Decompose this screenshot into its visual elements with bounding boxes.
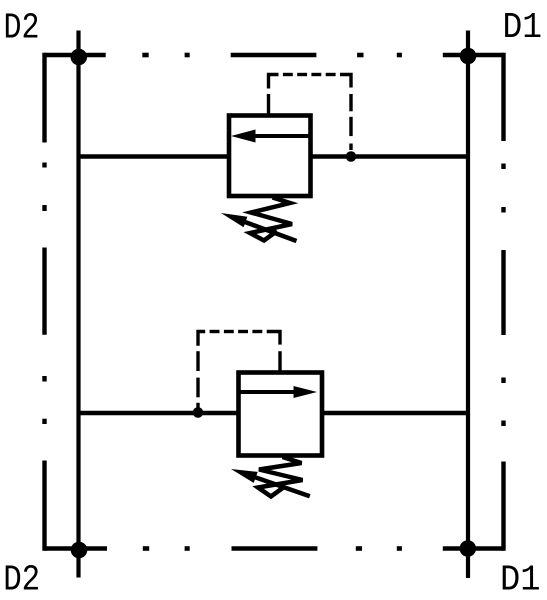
wire: lower branch line xyxy=(79,411,469,415)
wire: left rail D2 xyxy=(76,31,80,578)
enclosure phantom bracket left xyxy=(42,53,46,551)
enclosure phantom line top (dash-dot-dot) xyxy=(44,53,504,58)
svg-text:D1: D1 xyxy=(503,7,543,48)
relief valve RV1 adjustable spring xyxy=(221,198,297,242)
svg-text:D2: D2 xyxy=(4,8,40,49)
relief valve RV2 adjustable spring xyxy=(231,457,310,497)
junction dot bottom-left xyxy=(71,542,88,559)
enclosure phantom bracket right xyxy=(501,53,505,551)
relief valve RV2 pilot line (dashed) xyxy=(198,332,280,410)
pilot junction node on upper branch xyxy=(346,151,357,162)
relief valve RV2 flow arrow xyxy=(239,386,318,398)
svg-text:D2: D2 xyxy=(3,560,40,600)
relief valve RV1 body xyxy=(229,116,311,197)
junction dot bottom-right xyxy=(460,540,477,557)
wire: upper branch line xyxy=(79,154,469,158)
svg-text:D1: D1 xyxy=(500,560,541,600)
relief valve RV1 pilot line (dashed) xyxy=(269,75,352,151)
wire: right rail D1 xyxy=(466,31,470,579)
enclosure phantom line bottom (dash-dot-dot) xyxy=(44,546,504,551)
relief valve RV2 body xyxy=(239,373,323,456)
pilot junction node on lower branch xyxy=(193,407,204,418)
relief valve RV1 flow arrow xyxy=(231,130,311,143)
junction dot top-right xyxy=(460,48,477,65)
junction dot top-left xyxy=(71,49,88,66)
